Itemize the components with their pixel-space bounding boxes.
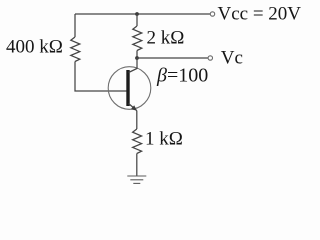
svg-text:Vc: Vc <box>221 48 243 69</box>
wire left branch lower lead and base run <box>75 62 127 92</box>
svg-text:β=100: β=100 <box>156 64 208 86</box>
wire collector lead into transistor <box>129 58 137 73</box>
node junction at top of 2k resistor <box>135 12 139 16</box>
resistor 2 kOhm <box>133 26 142 51</box>
svg-text:400 kΩ: 400 kΩ <box>6 36 63 57</box>
wire collector branch upper lead <box>136 14 138 26</box>
transistor Q1 emitter with arrow <box>129 104 137 111</box>
wire left vertical (top lead of R 400k) <box>74 14 76 37</box>
svg-text:1 kΩ: 1 kΩ <box>145 129 183 150</box>
terminal Vcc open circle <box>210 12 214 16</box>
svg-text:2 kΩ: 2 kΩ <box>147 27 185 48</box>
node collector junction <box>135 56 139 60</box>
terminal Vc open circle <box>208 56 212 60</box>
wire from 2k resistor to collector node <box>136 51 138 59</box>
svg-text:Vcc = 20V: Vcc = 20V <box>218 4 302 25</box>
wire emitter vertical lead <box>136 111 138 129</box>
resistor 1 kOhm <box>133 129 142 154</box>
resistor 400 kOhm <box>71 37 80 62</box>
transistor Q1 base bar <box>126 70 129 106</box>
wire to ground <box>136 154 138 177</box>
wire top rail from left branch to Vcc terminal <box>75 13 210 15</box>
wire Vc output run <box>137 57 208 59</box>
transistor Q1 circle <box>108 67 151 110</box>
ground <box>127 176 146 183</box>
